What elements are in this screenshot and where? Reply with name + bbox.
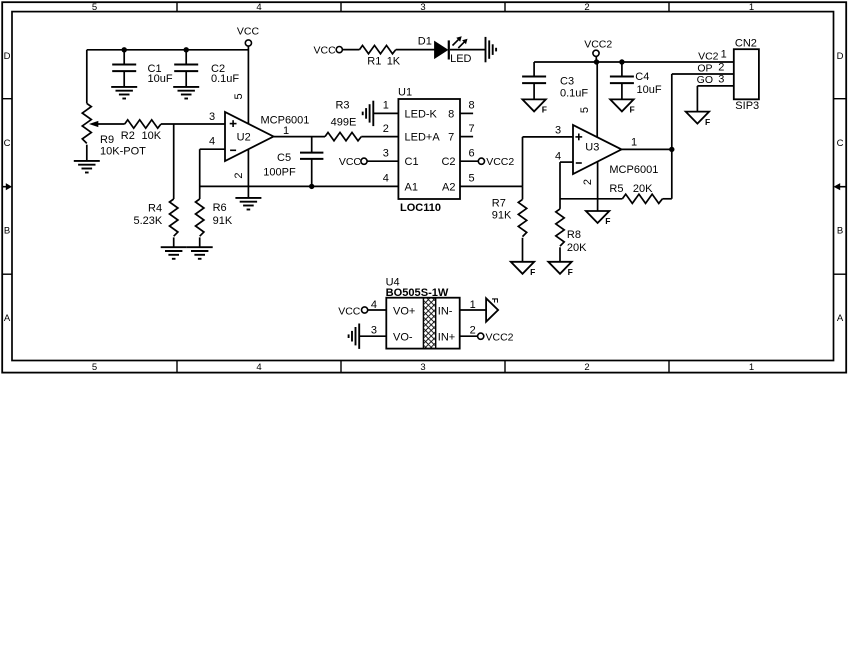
svg-text:C5: C5 — [277, 152, 291, 164]
wire R9 to ground — [86, 145, 88, 161]
wire VCC to R1 — [342, 49, 359, 51]
svg-text:0.1uF: 0.1uF — [211, 73, 239, 85]
svg-text:2: 2 — [383, 123, 389, 135]
svg-text:C1: C1 — [405, 156, 419, 168]
svg-text:SIP3: SIP3 — [735, 100, 759, 112]
ground U2 pin2 — [235, 198, 261, 210]
svg-text:3: 3 — [371, 325, 377, 337]
resistor R7 — [492, 186, 527, 261]
svg-text:VCC: VCC — [339, 156, 362, 168]
resistor R4 — [134, 124, 178, 247]
ground U4 pin3 — [349, 324, 360, 349]
svg-text:F: F — [530, 267, 535, 277]
border zone dividers top — [177, 2, 669, 11]
ground flag C3 — [522, 99, 547, 114]
svg-text:VO-: VO- — [393, 332, 413, 344]
power symbol VCC (U1 pin3) — [339, 156, 367, 168]
svg-text:F: F — [605, 216, 610, 226]
svg-text:3: 3 — [209, 111, 215, 123]
wire U1 pin6 — [460, 160, 478, 162]
svg-text:1: 1 — [749, 2, 754, 13]
svg-text:C: C — [4, 138, 11, 149]
svg-text:R8: R8 — [567, 229, 581, 241]
ground flag R8 — [548, 262, 573, 277]
ground C1 — [111, 87, 137, 99]
ground LED — [486, 37, 497, 62]
svg-text:2: 2 — [582, 179, 594, 185]
svg-text:A1: A1 — [405, 181, 418, 193]
ground flag CN2 GO — [686, 112, 711, 127]
svg-text:6: 6 — [468, 147, 474, 159]
svg-text:VCC: VCC — [314, 44, 337, 56]
svg-text:D: D — [837, 51, 844, 62]
power symbol VCC (top) — [237, 25, 260, 46]
capacitor C2 — [174, 50, 239, 87]
svg-text:100PF: 100PF — [263, 167, 296, 179]
power symbol VCC (R1) — [314, 44, 343, 56]
svg-text:2: 2 — [718, 62, 724, 74]
wire U1 pin5 to U3 pin3 riser — [522, 137, 524, 187]
svg-text:U2: U2 — [237, 131, 251, 143]
wire feedback R5 — [560, 198, 622, 200]
svg-text:5: 5 — [92, 2, 97, 13]
resistor R6 — [196, 149, 233, 247]
svg-text:2: 2 — [470, 325, 476, 337]
svg-text:R6: R6 — [213, 202, 227, 214]
svg-text:VCC2: VCC2 — [584, 39, 612, 51]
wire U1 pin5 (A2 out) — [460, 185, 523, 187]
svg-text:LED+A: LED+A — [405, 132, 441, 144]
wire feedback to A1 — [200, 185, 399, 187]
svg-text:U3: U3 — [585, 142, 599, 154]
wire U3 pin5 — [596, 62, 598, 137]
svg-text:B: B — [4, 226, 10, 237]
svg-text:IN+: IN+ — [438, 332, 455, 344]
border zone letters right — [837, 51, 844, 324]
wire VCC vertical to U2 pin5 — [247, 46, 249, 124]
svg-text:VCC: VCC — [237, 25, 260, 37]
svg-text:5.23K: 5.23K — [134, 215, 163, 227]
wire R3 to U1 pin2 — [361, 136, 398, 138]
svg-text:OP: OP — [697, 62, 712, 74]
svg-text:IN-: IN- — [438, 305, 453, 317]
wire VCC2 rail — [534, 61, 734, 63]
svg-text:LED: LED — [450, 53, 471, 65]
svg-text:R2: R2 — [121, 130, 135, 142]
svg-text:5: 5 — [579, 107, 591, 113]
wire U3 pin4 — [560, 161, 573, 163]
capacitor C3 — [522, 62, 588, 100]
wire R2 to U2 pin3 — [161, 123, 225, 125]
svg-text:5: 5 — [233, 93, 245, 99]
svg-text:10K: 10K — [142, 130, 162, 142]
potentiometer R9 — [82, 103, 146, 157]
op-amp U3 — [573, 125, 622, 174]
svg-text:VO+: VO+ — [393, 305, 415, 317]
svg-text:A2: A2 — [442, 181, 455, 193]
svg-text:F: F — [705, 117, 710, 127]
resistor R3 — [325, 100, 361, 141]
capacitor C5 — [263, 137, 323, 187]
svg-text:F: F — [568, 267, 573, 277]
svg-text:R7: R7 — [492, 198, 506, 210]
svg-text:91K: 91K — [492, 210, 512, 222]
svg-text:3: 3 — [555, 125, 561, 137]
wire U4 pin3 — [359, 335, 386, 337]
wire U4 pin2 — [460, 335, 478, 337]
svg-text:B: B — [837, 226, 843, 237]
wire U4 pin1 — [460, 309, 486, 311]
wire CN2 pin3 GO — [697, 86, 733, 112]
svg-text:7: 7 — [448, 132, 454, 144]
border zone numbers bottom — [92, 362, 754, 373]
power symbol VCC2 (U1 pin6) — [478, 156, 514, 168]
svg-text:VCC2: VCC2 — [486, 156, 514, 168]
svg-text:10K-POT: 10K-POT — [100, 146, 146, 158]
ground U1 pin1 — [363, 101, 374, 126]
wire OP to CN2 — [672, 73, 734, 75]
svg-text:1: 1 — [721, 49, 727, 61]
svg-text:LED-K: LED-K — [405, 108, 438, 120]
svg-text:1: 1 — [383, 100, 389, 112]
power symbol VCC2 (U4 pin2) — [478, 332, 514, 344]
svg-text:F: F — [630, 105, 635, 115]
svg-text:1: 1 — [470, 299, 476, 311]
wire U3 pin4 riser — [559, 162, 561, 209]
node junction VCC2/U3 pin5 — [594, 59, 599, 64]
wire U3 pin3 — [523, 136, 574, 138]
capacitor C1 — [112, 50, 173, 87]
svg-text:LOC110: LOC110 — [400, 202, 441, 214]
node junction C4 — [619, 59, 624, 64]
svg-text:1: 1 — [631, 136, 637, 148]
resistor R1 — [360, 45, 401, 67]
svg-text:CN2: CN2 — [735, 37, 757, 49]
svg-text:U1: U1 — [398, 87, 412, 99]
svg-text:A: A — [4, 313, 11, 324]
wire U1 pin7 stub — [460, 136, 473, 138]
svg-text:7: 7 — [468, 123, 474, 135]
svg-text:C3: C3 — [560, 76, 574, 88]
ground flag U3 pin2 — [586, 211, 611, 226]
svg-text:VCC2: VCC2 — [486, 332, 514, 344]
ground flag U4 pin1 — [486, 298, 500, 322]
svg-text:20K: 20K — [567, 242, 587, 254]
svg-text:A: A — [837, 313, 844, 324]
node junction U3 output — [669, 147, 674, 152]
svg-text:499E: 499E — [331, 117, 357, 129]
wire R5 to output node — [662, 198, 671, 200]
svg-text:3: 3 — [718, 73, 724, 85]
svg-text:1K: 1K — [387, 55, 401, 67]
wire U2 output — [274, 136, 326, 138]
svg-text:F: F — [542, 105, 547, 115]
svg-text:GO: GO — [697, 74, 713, 86]
ground C2 — [173, 87, 199, 99]
resistor R5 — [609, 183, 662, 204]
wire U1 pin1 — [373, 112, 398, 114]
svg-text:8: 8 — [468, 100, 474, 112]
svg-text:4: 4 — [256, 2, 261, 13]
svg-text:20K: 20K — [633, 183, 653, 195]
wire U1 pin3 — [367, 160, 398, 162]
optocoupler U1 — [398, 99, 460, 199]
ground R6 — [187, 247, 213, 259]
op-amp U2 — [225, 112, 274, 161]
svg-text:10uF: 10uF — [637, 84, 662, 96]
wire U3 pin2 — [597, 162, 599, 211]
svg-text:2: 2 — [584, 2, 589, 13]
svg-text:4: 4 — [371, 299, 377, 311]
border centre arrow right — [834, 183, 847, 190]
svg-text:8: 8 — [448, 108, 454, 120]
pin 2 label CN2 OP — [697, 62, 724, 75]
svg-text:4: 4 — [256, 362, 261, 373]
resistor R8 — [556, 209, 587, 262]
wire R1 to D1 — [396, 49, 435, 51]
svg-text:1: 1 — [283, 125, 289, 137]
svg-text:2: 2 — [584, 362, 589, 373]
svg-text:3: 3 — [420, 2, 425, 13]
svg-text:5: 5 — [468, 173, 474, 185]
svg-text:MCP6001: MCP6001 — [609, 164, 658, 176]
svg-text:4: 4 — [383, 173, 389, 185]
border zone dividers left — [2, 99, 12, 275]
power symbol VCC (U4 pin4) — [338, 305, 367, 317]
svg-text:3: 3 — [383, 147, 389, 159]
svg-text:C2: C2 — [441, 156, 455, 168]
wire U1 pin8 stub — [460, 112, 473, 114]
power symbol VCC2 (top) — [584, 39, 612, 62]
wire U2 pin2 to ground — [247, 149, 249, 198]
svg-text:2: 2 — [233, 172, 245, 178]
border zone numbers top — [92, 2, 754, 13]
svg-text:R3: R3 — [335, 100, 349, 112]
border centre arrow left — [2, 183, 12, 190]
border zone dividers right — [834, 99, 847, 275]
pin 1 label CN2 VC2 — [698, 49, 727, 63]
wire VCC rail — [87, 49, 249, 51]
svg-text:0.1uF: 0.1uF — [560, 88, 588, 100]
svg-text:3: 3 — [420, 362, 425, 373]
svg-text:4: 4 — [555, 150, 561, 162]
wire U4 pin4 — [368, 309, 387, 311]
ground flag C4 — [610, 99, 635, 114]
ground R4 — [161, 247, 187, 259]
svg-text:VC2: VC2 — [698, 51, 719, 63]
svg-text:4: 4 — [209, 136, 215, 148]
svg-text:R4: R4 — [148, 203, 162, 215]
ground flag R7 — [511, 262, 536, 277]
ground R9 — [74, 161, 100, 173]
svg-text:C4: C4 — [635, 71, 649, 83]
svg-text:91K: 91K — [213, 215, 233, 227]
svg-text:D: D — [4, 51, 11, 62]
connector CN2 — [734, 37, 759, 112]
wire D1 to ground — [450, 49, 486, 51]
svg-text:R5: R5 — [609, 183, 623, 195]
wire U3 output — [622, 148, 672, 150]
wire VCC rail to R9 — [86, 50, 88, 104]
LED D1 — [418, 35, 472, 65]
resistor R2 — [121, 120, 162, 142]
node junction C5/A1 — [309, 184, 314, 189]
capacitor C4 — [610, 62, 662, 99]
svg-text:D1: D1 — [418, 35, 432, 47]
svg-text:10uF: 10uF — [148, 73, 173, 85]
wire output vertical — [671, 74, 673, 199]
svg-text:R9: R9 — [100, 134, 114, 146]
svg-text:C: C — [837, 138, 844, 149]
svg-text:5: 5 — [92, 362, 97, 373]
pin 3 label CN2 GO — [697, 73, 725, 86]
border outer frame — [2, 2, 846, 372]
svg-text:VCC: VCC — [338, 305, 361, 317]
node junction C1 — [122, 47, 127, 52]
DC-DC converter U4 — [386, 298, 459, 349]
svg-text:F: F — [490, 298, 500, 303]
border zone letters left — [4, 51, 11, 324]
border zone dividers bottom — [177, 361, 669, 373]
border inner frame — [12, 12, 834, 361]
node junction C2 — [184, 47, 189, 52]
svg-text:1: 1 — [749, 362, 754, 373]
svg-text:R1: R1 — [367, 55, 381, 67]
wire U2 pin4 — [200, 148, 225, 150]
